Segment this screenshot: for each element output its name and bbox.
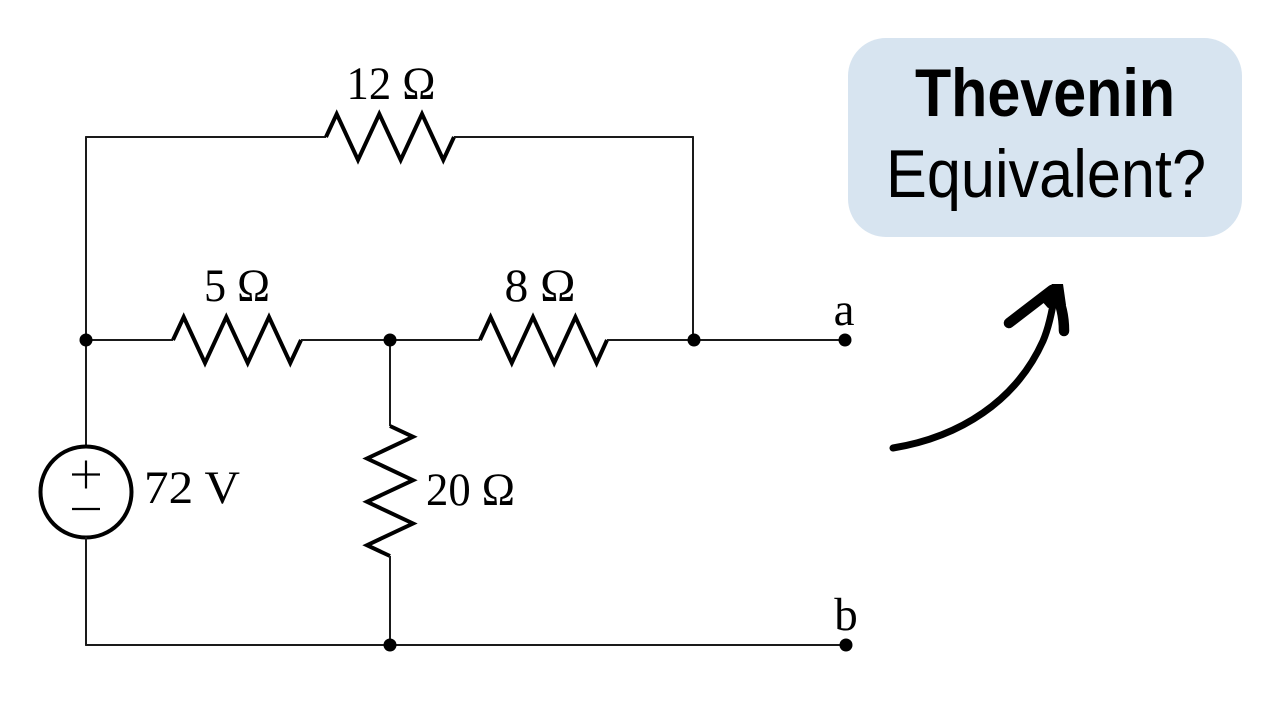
arrow curved shaft: [893, 293, 1055, 448]
wire: top-right horizontal segment: [454, 136, 693, 138]
node junction right-middle: [688, 334, 701, 347]
wire: top-left horizontal segment: [86, 136, 326, 138]
wire: right vertical segment: [692, 136, 694, 340]
svg-text:Thevenin: Thevenin: [915, 55, 1175, 131]
wire: centre branch vertical upper stub: [389, 340, 391, 426]
node junction left-middle: [80, 334, 93, 347]
node junction centre-middle: [384, 334, 397, 347]
wire: middle horizontal centre segment: [301, 339, 480, 341]
svg-text:b: b: [834, 589, 858, 641]
wire: middle horizontal left stub: [86, 339, 173, 341]
terminal b dot: [840, 639, 853, 652]
node junction bottom-centre: [384, 639, 397, 652]
wire: left vertical upper segment: [85, 136, 87, 447]
svg-text:20 Ω: 20 Ω: [426, 464, 515, 516]
resistor R 20ohm vertical zigzag: [367, 426, 413, 556]
wire: bottom horizontal segment: [86, 644, 846, 646]
voltage source V1 circle: [41, 447, 132, 538]
arrow head right barb: [1055, 292, 1064, 331]
arrow head tip blob: [1040, 284, 1066, 308]
terminal a dot: [839, 334, 852, 347]
svg-text:8 Ω: 8 Ω: [505, 260, 576, 312]
svg-text:a: a: [834, 284, 855, 336]
resistor R 5ohm zigzag: [173, 317, 301, 363]
wire: middle horizontal right segment to terminal a: [607, 339, 845, 341]
svg-text:Equivalent?: Equivalent?: [886, 136, 1206, 212]
svg-text:5 Ω: 5 Ω: [204, 260, 270, 312]
wire: left vertical lower segment: [85, 537, 87, 646]
voltage source minus sign: [72, 508, 100, 510]
resistor R 8ohm zigzag: [480, 317, 607, 363]
voltage source plus sign: [72, 461, 100, 489]
wire: centre branch vertical lower stub: [389, 556, 391, 645]
callout box Thevenin Equivalent?: [848, 38, 1242, 237]
resistor R 12ohm zigzag: [326, 114, 454, 160]
arrow head left barb: [1009, 290, 1052, 323]
svg-text:12 Ω: 12 Ω: [347, 58, 436, 110]
svg-text:72 V: 72 V: [144, 462, 240, 514]
